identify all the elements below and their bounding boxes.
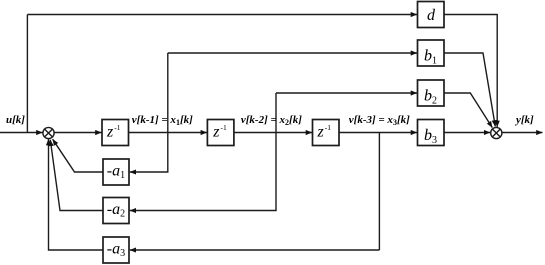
- svg-text:-a1: -a1: [107, 162, 125, 181]
- svg-text:y[k]: y[k]: [514, 114, 534, 126]
- node input branch junction: [26, 15, 28, 133]
- svg-text:z-1: z-1: [212, 123, 227, 141]
- gain block b1: [418, 40, 445, 66]
- node tap x2: [275, 93, 277, 133]
- svg-text:z-1: z-1: [106, 123, 121, 141]
- gain block b3: [418, 120, 445, 146]
- wire z2 to z3: [234, 132, 312, 134]
- wire b3 to S2: [444, 132, 490, 134]
- svg-text:v[k-3] = x3[k]: v[k-3] = x3[k]: [349, 114, 410, 127]
- svg-text:v[k-1] = x1[k]: v[k-1] = x1[k]: [132, 114, 193, 127]
- wire b2 to S2: [444, 93, 492, 128]
- feedback gain block -a2: [103, 198, 129, 224]
- wire x1 to b1: [168, 52, 417, 54]
- gain block b2: [418, 80, 445, 106]
- node tap x1: [167, 53, 169, 133]
- svg-text:v[k-2] = x2[k]: v[k-2] = x2[k]: [241, 114, 302, 127]
- wire output y[k]: [502, 132, 543, 134]
- wire z1 to z2: [129, 132, 207, 134]
- svg-text:d: d: [427, 7, 436, 24]
- wire d to S2: [444, 15, 497, 127]
- svg-text:b1: b1: [424, 48, 437, 67]
- wire -a2 to S1: [50, 140, 103, 211]
- gain block d: [418, 2, 445, 28]
- wire top rail to d: [27, 14, 417, 16]
- wire -a3 to S1: [49, 139, 104, 250]
- wire z3 to b3: [339, 132, 417, 134]
- wire -a1 to S1: [53, 139, 103, 172]
- wire x3 down to -a3: [130, 249, 380, 251]
- node tap x3: [378, 133, 380, 251]
- svg-text:z-1: z-1: [317, 123, 332, 141]
- svg-text:-a3: -a3: [107, 240, 125, 259]
- delay block z1: [102, 120, 129, 146]
- svg-text:b2: b2: [424, 88, 437, 107]
- summing junction S1: [43, 127, 54, 138]
- summing junction S2: [491, 127, 502, 138]
- wire b1 to S2: [444, 53, 495, 127]
- svg-text:-a2: -a2: [107, 201, 125, 220]
- svg-text:u[k]: u[k]: [6, 114, 25, 126]
- delay block z3: [313, 120, 340, 146]
- wire input u[k]: [0, 132, 43, 134]
- wire S1 to z1: [54, 132, 101, 134]
- svg-text:b3: b3: [424, 127, 437, 146]
- feedback gain block -a1: [103, 159, 129, 185]
- delay block z2: [207, 120, 234, 146]
- wire x1 down to -a1: [130, 133, 168, 173]
- wire x2 to b2: [276, 92, 417, 94]
- wire x2 down to -a2: [130, 133, 276, 211]
- feedback gain block -a3: [103, 237, 129, 263]
